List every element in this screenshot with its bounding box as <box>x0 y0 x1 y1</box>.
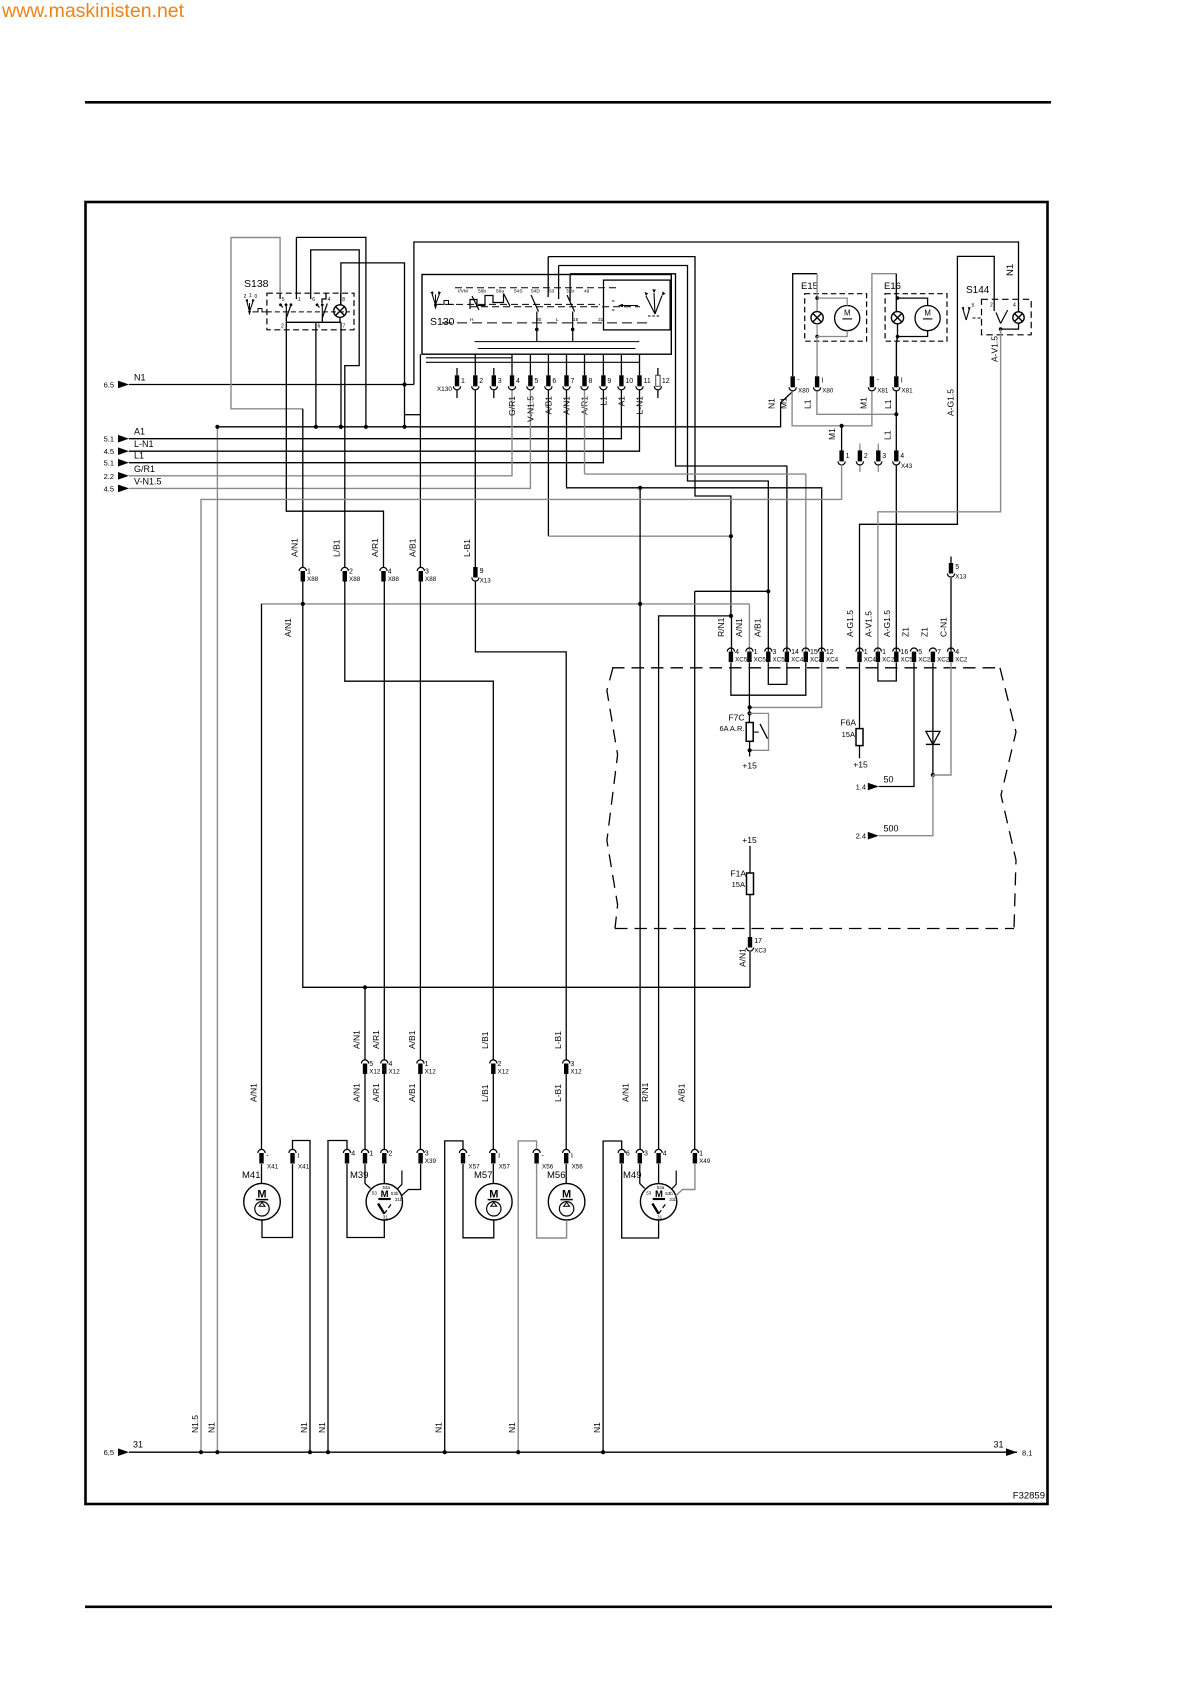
wire S130 nest loop 2 to XC5-3 <box>559 266 769 652</box>
svg-text:2: 2 <box>349 569 353 576</box>
svg-text:M: M <box>562 1189 571 1201</box>
wire loop XC2-1 to XC5-16 <box>878 663 896 682</box>
svg-text:31: 31 <box>133 1440 143 1450</box>
E16 lamp feed down to X81-I <box>896 337 897 377</box>
svg-text:X56: X56 <box>572 1164 584 1171</box>
S138 contact set 2 <box>316 303 319 306</box>
svg-text:A/N1: A/N1 <box>352 1083 362 1102</box>
svg-text:M: M <box>924 308 931 317</box>
M41 wires <box>261 1164 263 1183</box>
S144 lamp bottom tie <box>1001 323 1019 329</box>
connector X130 pin 8 <box>582 375 586 386</box>
svg-text:9: 9 <box>607 378 611 385</box>
S138 contact set 1 <box>279 303 282 306</box>
svg-text:5: 5 <box>534 378 538 385</box>
connector X80 pin - <box>791 376 795 387</box>
F7C fuse body <box>746 723 753 742</box>
svg-text:+15: +15 <box>853 760 868 770</box>
wire X88-1 continues to XC3 horizontal <box>303 604 750 987</box>
wire N1 lower run to X80 <box>217 391 792 426</box>
S138 top loop t1 <box>295 237 297 293</box>
control unit dashed box left edge <box>607 668 618 929</box>
svg-text:L-B1: L-B1 <box>553 1031 563 1049</box>
wire A/N1 branch down to M49 <box>639 488 641 604</box>
svg-text:M56: M56 <box>547 1170 565 1181</box>
S144 feed loop to A-G1.5 <box>860 256 995 651</box>
wire M1/N1.5 long ground run <box>201 465 842 1453</box>
svg-text:5: 5 <box>918 649 922 656</box>
connector X56 pin - <box>533 1149 540 1153</box>
svg-text:3: 3 <box>882 453 886 460</box>
svg-text:53a: 53a <box>383 1185 391 1190</box>
svg-text:3: 3 <box>425 569 429 576</box>
svg-text:V-N1.5: V-N1.5 <box>526 396 536 422</box>
wire S130 nest loop 3 to XC4-14 <box>570 274 787 652</box>
connector X130 pin 3 <box>492 375 496 386</box>
svg-text:M: M <box>844 308 851 317</box>
svg-text:6: 6 <box>626 1151 630 1158</box>
svg-text:A1: A1 <box>134 427 145 437</box>
svg-text:A/B1: A/B1 <box>408 538 418 557</box>
svg-text:31: 31 <box>657 1214 663 1219</box>
svg-text:4: 4 <box>663 1151 667 1158</box>
svg-text:M39: M39 <box>350 1170 368 1181</box>
svg-text:1: 1 <box>846 453 850 460</box>
svg-text:X41: X41 <box>298 1164 310 1171</box>
E16 motor <box>915 306 940 331</box>
svg-text:L: L <box>556 317 559 323</box>
E15 lamp feed down to X80-I <box>816 337 818 377</box>
rail right arrow 8,1 <box>1006 1448 1017 1456</box>
motor M49 rear wiper <box>640 1184 676 1220</box>
svg-text:53b: 53b <box>391 1191 399 1196</box>
svg-text:5: 5 <box>369 1061 373 1068</box>
S130 internal feed drops <box>547 257 549 297</box>
F7C output <box>749 741 751 756</box>
wire loop XC5-4 to XC4-15 <box>731 663 806 696</box>
svg-text:XC2: XC2 <box>937 657 950 664</box>
S130 dashed bottom line <box>442 322 648 324</box>
svg-text:53: 53 <box>549 289 555 295</box>
svg-text:F7C: F7C <box>728 713 744 723</box>
control unit dashed box top <box>612 667 1000 669</box>
S138 internal mid dashed line <box>267 311 350 313</box>
svg-text:10: 10 <box>625 378 633 385</box>
wire Z1 to node 500 <box>879 775 933 836</box>
connector X12 pin 1 <box>417 1060 424 1064</box>
connector X88 pin 3 <box>417 567 424 571</box>
svg-text:X88: X88 <box>349 576 361 583</box>
connector X39 pin 3 <box>417 1149 424 1153</box>
connector X12 pin 3 <box>563 1060 570 1064</box>
S138 t2 wire to X88-4 <box>286 322 383 567</box>
S138 pilot lamp <box>334 305 347 318</box>
node 5.1 A1 feed arrow <box>118 435 129 443</box>
rail junction dots <box>199 1450 203 1454</box>
S138 selector link <box>253 309 267 312</box>
svg-text:11: 11 <box>644 378 651 385</box>
connector X41 pin I <box>289 1149 296 1153</box>
connector XC5 pin 1 <box>746 648 753 652</box>
svg-text:9: 9 <box>480 568 484 575</box>
connector XC4 pin 14 <box>783 648 790 652</box>
wire Z1 XC2-5 to node 50 <box>879 663 914 787</box>
connector X56 pin I <box>563 1149 570 1153</box>
svg-text:15A: 15A <box>732 880 745 889</box>
svg-text:3: 3 <box>773 649 777 656</box>
S138 t7 wire to N1 <box>340 322 342 427</box>
svg-text:XC5: XC5 <box>735 657 748 664</box>
svg-text:7: 7 <box>343 324 346 330</box>
svg-text:X39: X39 <box>425 1158 437 1165</box>
svg-text:A-G1.5: A-G1.5 <box>845 610 855 637</box>
connector X49 pin 6 <box>618 1149 625 1153</box>
wire M1 from X80- to X81- <box>792 391 872 426</box>
connector X39 pin 4 <box>343 1149 350 1153</box>
svg-text:0: 0 <box>255 294 258 300</box>
svg-text:1.4: 1.4 <box>856 783 866 792</box>
node 4.5 V-N1.5 feed arrow <box>118 485 129 493</box>
top rule <box>85 101 1051 104</box>
svg-text:N1: N1 <box>299 1422 309 1433</box>
svg-text:N1: N1 <box>1005 264 1016 276</box>
E16 internal tie <box>896 296 900 300</box>
ground rail 31 <box>129 1451 1017 1453</box>
svg-text:XC5: XC5 <box>773 657 786 664</box>
svg-text:Z1: Z1 <box>920 627 930 637</box>
svg-text:5.1: 5.1 <box>104 435 114 444</box>
svg-text:49: 49 <box>584 289 590 295</box>
svg-text:31: 31 <box>598 317 604 323</box>
svg-text:6: 6 <box>312 297 315 303</box>
svg-text:50: 50 <box>884 775 894 785</box>
connector X41 pin - <box>258 1149 265 1153</box>
svg-text:53: 53 <box>646 1190 652 1195</box>
svg-text:17: 17 <box>754 938 762 945</box>
svg-text:A/N1: A/N1 <box>283 618 293 637</box>
M57 wires <box>492 1164 494 1183</box>
connector X13 pin 5 <box>950 557 952 564</box>
svg-text:56b: 56b <box>478 289 486 295</box>
svg-text:6.5: 6.5 <box>104 381 114 390</box>
svg-text:L-B1: L-B1 <box>553 1084 563 1102</box>
svg-text:N1: N1 <box>507 1422 517 1433</box>
svg-text:A-G1.5: A-G1.5 <box>946 389 956 416</box>
connector X43 pin 4 <box>894 450 898 461</box>
diode <box>932 663 934 732</box>
S144 pointer symbol <box>963 308 967 321</box>
wire A/N1 from X130-7 to XC4-12 <box>567 390 822 651</box>
wire N1 branch down to ground run <box>404 385 406 427</box>
svg-text:XC3: XC3 <box>754 948 767 955</box>
connector X130 pin 9 <box>601 375 605 386</box>
node 1.4 50 output arrow <box>868 783 879 791</box>
svg-text:L-B1: L-B1 <box>462 539 472 557</box>
S130 contact blade 1 <box>531 295 539 312</box>
svg-text:3: 3 <box>425 1151 429 1158</box>
svg-text:M1: M1 <box>827 428 837 440</box>
S130 inner indicator box <box>604 280 671 330</box>
wire N1 riser to top and across to S144 <box>414 242 1019 385</box>
S138 top loop t5 feed to X88-1 (gray) <box>231 238 303 409</box>
svg-text:A1: A1 <box>617 396 627 407</box>
svg-text:54D: 54D <box>531 289 540 295</box>
connector X130 pin 7 <box>564 375 568 386</box>
connector X130 pin 10 <box>619 375 623 386</box>
svg-text:XC2: XC2 <box>882 657 895 664</box>
svg-text:500: 500 <box>884 824 899 834</box>
svg-text:S138: S138 <box>244 278 269 290</box>
S138 top loop t8 (N1) <box>341 263 405 385</box>
svg-text:L1: L1 <box>882 430 892 440</box>
svg-text:F6A: F6A <box>840 718 856 728</box>
S138 top loop t6 to X88-2 <box>311 250 360 567</box>
svg-text:+15: +15 <box>742 835 757 845</box>
svg-text:A/B1: A/B1 <box>753 618 763 637</box>
S130 dashed terminal line <box>455 287 616 289</box>
svg-text:4: 4 <box>900 453 904 460</box>
svg-text:5: 5 <box>282 297 285 303</box>
svg-text:1: 1 <box>882 649 886 656</box>
connector X130 pin 12 <box>656 375 660 386</box>
wire L1 X43-4 down to XC5-16 <box>895 465 897 652</box>
svg-text:X88: X88 <box>307 576 319 583</box>
svg-text:www.maskinisten.net: www.maskinisten.net <box>1 0 185 22</box>
svg-text:M49: M49 <box>623 1170 641 1181</box>
svg-text:8: 8 <box>589 378 593 385</box>
node N1/S138-7 junction <box>339 425 343 429</box>
connector XC4 pin 15 <box>802 648 809 652</box>
svg-text:53: 53 <box>372 1190 378 1195</box>
wire loop XC5-3 to XC4-14 <box>768 663 787 685</box>
control unit dashed box right edge <box>1000 668 1016 929</box>
svg-text:L/B1: L/B1 <box>332 539 342 557</box>
wire XC5-1 down to F7C <box>748 663 750 723</box>
connector X81 pin - <box>870 376 874 387</box>
svg-text:6,5: 6,5 <box>104 1448 114 1457</box>
S138 t6 wire to N1 <box>315 322 317 427</box>
svg-text:M1: M1 <box>779 397 789 409</box>
connector XC2 pin 7 <box>929 648 936 652</box>
svg-text:2: 2 <box>479 378 483 385</box>
svg-text:I: I <box>571 1153 573 1160</box>
connector XC4 pin 12 <box>818 648 825 652</box>
E15 top loop <box>793 274 817 377</box>
svg-text:1: 1 <box>369 1151 373 1158</box>
svg-text:1: 1 <box>754 649 758 656</box>
svg-text:2: 2 <box>244 294 247 300</box>
svg-text:N1.5: N1.5 <box>190 1415 200 1433</box>
svg-text:A/N1: A/N1 <box>738 948 748 967</box>
svg-text:XC5: XC5 <box>754 657 767 664</box>
connector X12 pin 4 <box>381 1060 388 1064</box>
svg-text:2.2: 2.2 <box>104 472 114 481</box>
svg-text:A/N1: A/N1 <box>734 618 744 637</box>
schematic border frame <box>86 202 1048 1504</box>
svg-text:A-V1.5: A-V1.5 <box>990 336 1000 362</box>
connector XC5 pin 16 <box>893 648 900 652</box>
wire R/N1 M49 to XC5-4 <box>659 616 732 1149</box>
svg-text:A/N1: A/N1 <box>249 1083 259 1102</box>
node 4.5 L-N1 feed arrow <box>118 447 129 455</box>
wire G/R1 to X130 pin 4 <box>129 390 512 475</box>
wire N1 ground drop <box>216 427 218 1452</box>
connector X88 pin 1 <box>299 567 306 571</box>
svg-text:A/B1: A/B1 <box>407 1083 417 1102</box>
wire A/N1 branch to X12-5 <box>364 987 366 1059</box>
svg-text:1: 1 <box>699 1151 703 1158</box>
svg-text:E16: E16 <box>884 281 901 292</box>
svg-text:X81: X81 <box>877 388 889 395</box>
wire A/N1 drop to M49 pin 3 <box>639 604 641 1149</box>
connector XC3 pin 17 <box>748 937 752 948</box>
svg-text:8,1: 8,1 <box>1022 1449 1032 1458</box>
svg-text:S144: S144 <box>966 285 990 296</box>
svg-text:2: 2 <box>990 303 993 309</box>
wire L-B1 X13-9 to X12-3 <box>475 582 566 1060</box>
svg-text:4: 4 <box>351 1151 355 1158</box>
S130 to X130 pin stubs <box>474 354 476 375</box>
wire L1 to X130 pin 9 <box>129 390 603 462</box>
svg-text:53b: 53b <box>665 1191 673 1196</box>
wire A/N1 main run <box>262 603 750 605</box>
connector X130 pin 5 <box>528 375 532 386</box>
svg-text:31b: 31b <box>669 1197 677 1202</box>
svg-text:4: 4 <box>955 649 959 656</box>
control unit dashed box bottom <box>615 928 1014 930</box>
node N1 junction <box>402 382 406 386</box>
svg-text:31: 31 <box>383 1214 389 1219</box>
svg-text:R/N1: R/N1 <box>640 1082 650 1102</box>
svg-text:M41: M41 <box>242 1170 260 1181</box>
connector XC5 pin 3 <box>765 648 772 652</box>
svg-text:XC4: XC4 <box>864 657 877 664</box>
wire A/R1 X88-4 to X12-4 <box>383 582 385 1060</box>
S130 internal bus lines <box>475 341 640 343</box>
wire L1 from X80-I to X43-4 <box>817 391 896 414</box>
wire A/N1 XC3-17 to run <box>749 952 751 987</box>
S130 wiper symbol <box>432 292 436 305</box>
connector X13 pin 9 <box>473 567 477 578</box>
S138 terminal 1 <box>295 293 297 299</box>
connector X12 pin 2 <box>490 1060 497 1064</box>
svg-text:XC2: XC2 <box>918 657 931 664</box>
svg-text:G/R1: G/R1 <box>507 396 517 416</box>
svg-text:16: 16 <box>901 649 909 656</box>
X12 to motor connector wires <box>364 1074 366 1149</box>
svg-text:A/R1: A/R1 <box>371 1030 381 1049</box>
connector XC2 pin 1 <box>874 648 881 652</box>
S138 bottom bus <box>286 318 341 322</box>
svg-text:X12: X12 <box>369 1069 381 1076</box>
svg-text:4.5: 4.5 <box>104 484 114 493</box>
connector X39 pin 1 <box>361 1149 368 1153</box>
svg-text:31b: 31b <box>395 1197 403 1202</box>
svg-text:I/VM: I/VM <box>458 289 468 295</box>
wire X43-1 up to M1 <box>841 426 843 451</box>
svg-text:L1: L1 <box>599 396 609 406</box>
wire A/N1 X88-1 riser <box>302 409 304 567</box>
svg-text:M: M <box>257 1189 266 1201</box>
connector X88 pin 2 <box>341 567 348 571</box>
connector X81 pin I <box>894 376 898 387</box>
svg-text:12: 12 <box>662 378 670 385</box>
svg-text:53a: 53a <box>657 1185 665 1190</box>
connector XC2 pin 5 <box>910 648 917 652</box>
svg-text:A-V1.5: A-V1.5 <box>864 611 874 637</box>
svg-text:N1: N1 <box>207 1422 217 1433</box>
wire L-B1 X130-2 to X13-9 <box>474 390 476 567</box>
svg-text:L-N1: L-N1 <box>635 396 645 415</box>
wire C-N1 joining diode node <box>933 663 951 776</box>
svg-text:XC4: XC4 <box>826 657 839 664</box>
connector X57 pin I <box>490 1149 497 1153</box>
motor M57 headlamp washer pump <box>476 1183 513 1220</box>
E15 lamp <box>811 312 823 324</box>
wire A1 to X130 pin 10 <box>129 390 621 438</box>
connector X130 pin 1 <box>455 375 459 386</box>
wire A-V1.5 from S144 to XC2-1 <box>878 329 1001 651</box>
svg-text:2.4: 2.4 <box>856 832 866 841</box>
connector X49 pin 3 <box>636 1149 643 1153</box>
svg-text:Z1: Z1 <box>901 627 911 637</box>
wire X88-1 down joining A/N1 run <box>302 582 304 604</box>
wire A/B1 branch XC5-3 to X49-1 <box>695 590 769 592</box>
connector X130 pin 6 <box>546 375 550 386</box>
wire V-N1.5 to X130 pin 5 <box>129 390 530 488</box>
S138 terminal 8 <box>340 293 342 304</box>
svg-text:H: H <box>470 317 474 323</box>
svg-text:XC5: XC5 <box>901 657 914 664</box>
svg-text:X88: X88 <box>388 576 400 583</box>
node N1/S138-6 junction <box>314 425 318 429</box>
svg-text:4: 4 <box>1013 303 1016 309</box>
svg-text:N1: N1 <box>317 1422 327 1433</box>
svg-text:X88: X88 <box>425 576 437 583</box>
svg-text:L1: L1 <box>134 451 144 461</box>
wire L1 X81-I down through X43-4 <box>895 391 897 450</box>
svg-text:15: 15 <box>810 649 818 656</box>
svg-text:L1: L1 <box>803 399 813 409</box>
svg-text:1: 1 <box>249 293 252 299</box>
svg-text:7: 7 <box>571 378 575 385</box>
connector X12 pin 5 <box>361 1060 368 1064</box>
svg-text:I: I <box>498 1153 500 1160</box>
svg-text:M1: M1 <box>858 397 868 409</box>
svg-text:3: 3 <box>570 1061 574 1068</box>
svg-text:4: 4 <box>516 378 520 385</box>
svg-text:X12: X12 <box>425 1069 437 1076</box>
svg-text:1: 1 <box>425 1061 429 1068</box>
M49 wires <box>640 1164 645 1188</box>
svg-text:X43: X43 <box>901 463 913 470</box>
svg-text:A/N1: A/N1 <box>621 1083 631 1102</box>
node N1 junction <box>402 425 406 429</box>
svg-text:2: 2 <box>498 1061 502 1068</box>
svg-text:G/R1: G/R1 <box>134 464 155 474</box>
svg-text:6A A.R.: 6A A.R. <box>719 724 744 733</box>
wire A/R1 from X130-8 to XC4-15 <box>584 390 586 474</box>
svg-text:4.5: 4.5 <box>104 447 114 456</box>
svg-text:14: 14 <box>791 649 799 656</box>
svg-text:54S: 54S <box>514 289 523 295</box>
connector X130 pin 11 <box>637 375 641 386</box>
S130 dashed actuator lines <box>434 303 600 305</box>
svg-text:N1: N1 <box>592 1422 602 1433</box>
svg-text:XC4: XC4 <box>791 657 804 664</box>
svg-text:B: B <box>972 303 975 308</box>
wire A/B1 from X130-6 <box>547 390 549 536</box>
